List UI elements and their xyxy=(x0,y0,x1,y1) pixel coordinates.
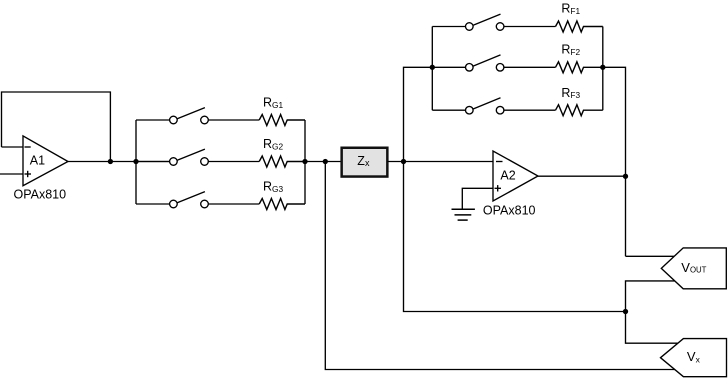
resistor RF2 xyxy=(556,62,603,73)
wire VOUT upper lead xyxy=(626,255,675,257)
switch SF2 xyxy=(432,55,555,71)
node RF left bus junction xyxy=(430,65,435,70)
op-amp A2 xyxy=(493,151,538,201)
ground xyxy=(452,209,475,220)
wire ZX output vertical riser xyxy=(404,67,626,311)
wire RF bus to A2 output column xyxy=(603,67,626,256)
wire A1 inverting input xyxy=(2,146,24,148)
wire RF right bus xyxy=(602,27,604,111)
wire RG bus to ZX input xyxy=(305,161,342,163)
wire ZX output to A2 inverting input xyxy=(388,161,494,163)
wire VX lower lead and bottom return xyxy=(325,162,674,370)
svg-text:RF1: RF1 xyxy=(561,2,580,16)
resistor RF1 xyxy=(556,21,603,32)
node RF right bus junction xyxy=(600,65,605,70)
node RG bus left junction xyxy=(133,159,138,164)
switch SG2 xyxy=(136,149,259,165)
resistor RG3 xyxy=(259,199,305,210)
node A1 feedback junction xyxy=(108,159,113,164)
wire VX upper lead xyxy=(626,312,678,344)
node A2 output junction xyxy=(623,174,628,179)
resistor RF3 xyxy=(556,105,603,116)
wire RG right bus xyxy=(304,120,306,204)
switch SG1 xyxy=(136,108,259,124)
wire RG left bus xyxy=(135,120,137,204)
wire VOUT lower lead xyxy=(626,281,675,312)
svg-text:RF2: RF2 xyxy=(561,43,580,57)
port VX flag xyxy=(661,339,727,377)
svg-text:RG3: RG3 xyxy=(263,180,283,194)
wire A1 output row xyxy=(68,161,170,163)
impedance ZX box xyxy=(342,148,388,177)
wire RF left bus xyxy=(431,27,433,111)
port VOUT flag xyxy=(661,248,726,289)
wire A1 noninverting input xyxy=(0,173,23,175)
svg-text:OPAx810: OPAx810 xyxy=(14,188,67,202)
wire A2 noninverting input to ground xyxy=(462,188,493,209)
node bottom junction xyxy=(623,309,628,314)
svg-text:A1: A1 xyxy=(30,153,45,167)
svg-text:RG2: RG2 xyxy=(263,137,283,151)
svg-text:RG1: RG1 xyxy=(263,96,283,110)
op-amp A1 xyxy=(23,136,68,186)
switch SF3 xyxy=(432,98,555,114)
node ZX output junction xyxy=(401,159,406,164)
resistor RG1 xyxy=(259,115,305,126)
wire A1 feedback loop xyxy=(2,92,111,162)
wire A2 output xyxy=(538,175,626,177)
svg-text:A2: A2 xyxy=(500,168,515,182)
resistor RG2 xyxy=(259,156,305,167)
svg-text:RF3: RF3 xyxy=(561,86,580,100)
node VX branch junction xyxy=(323,159,328,164)
switch SF1 xyxy=(432,14,555,30)
svg-text:OPAx810: OPAx810 xyxy=(483,203,536,217)
node RG bus right junction xyxy=(302,159,307,164)
switch SG3 xyxy=(136,192,259,208)
